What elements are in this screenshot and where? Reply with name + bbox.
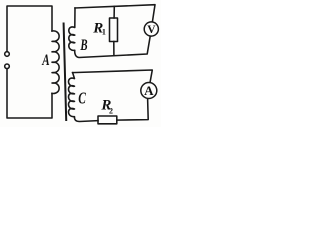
svg-text:V: V	[147, 24, 156, 36]
svg-text:1: 1	[102, 28, 106, 37]
svg-text:A: A	[144, 83, 154, 98]
svg-text:A: A	[42, 52, 50, 69]
svg-text:C: C	[78, 89, 86, 108]
svg-text:2: 2	[109, 106, 113, 115]
svg-text:B: B	[80, 37, 88, 54]
